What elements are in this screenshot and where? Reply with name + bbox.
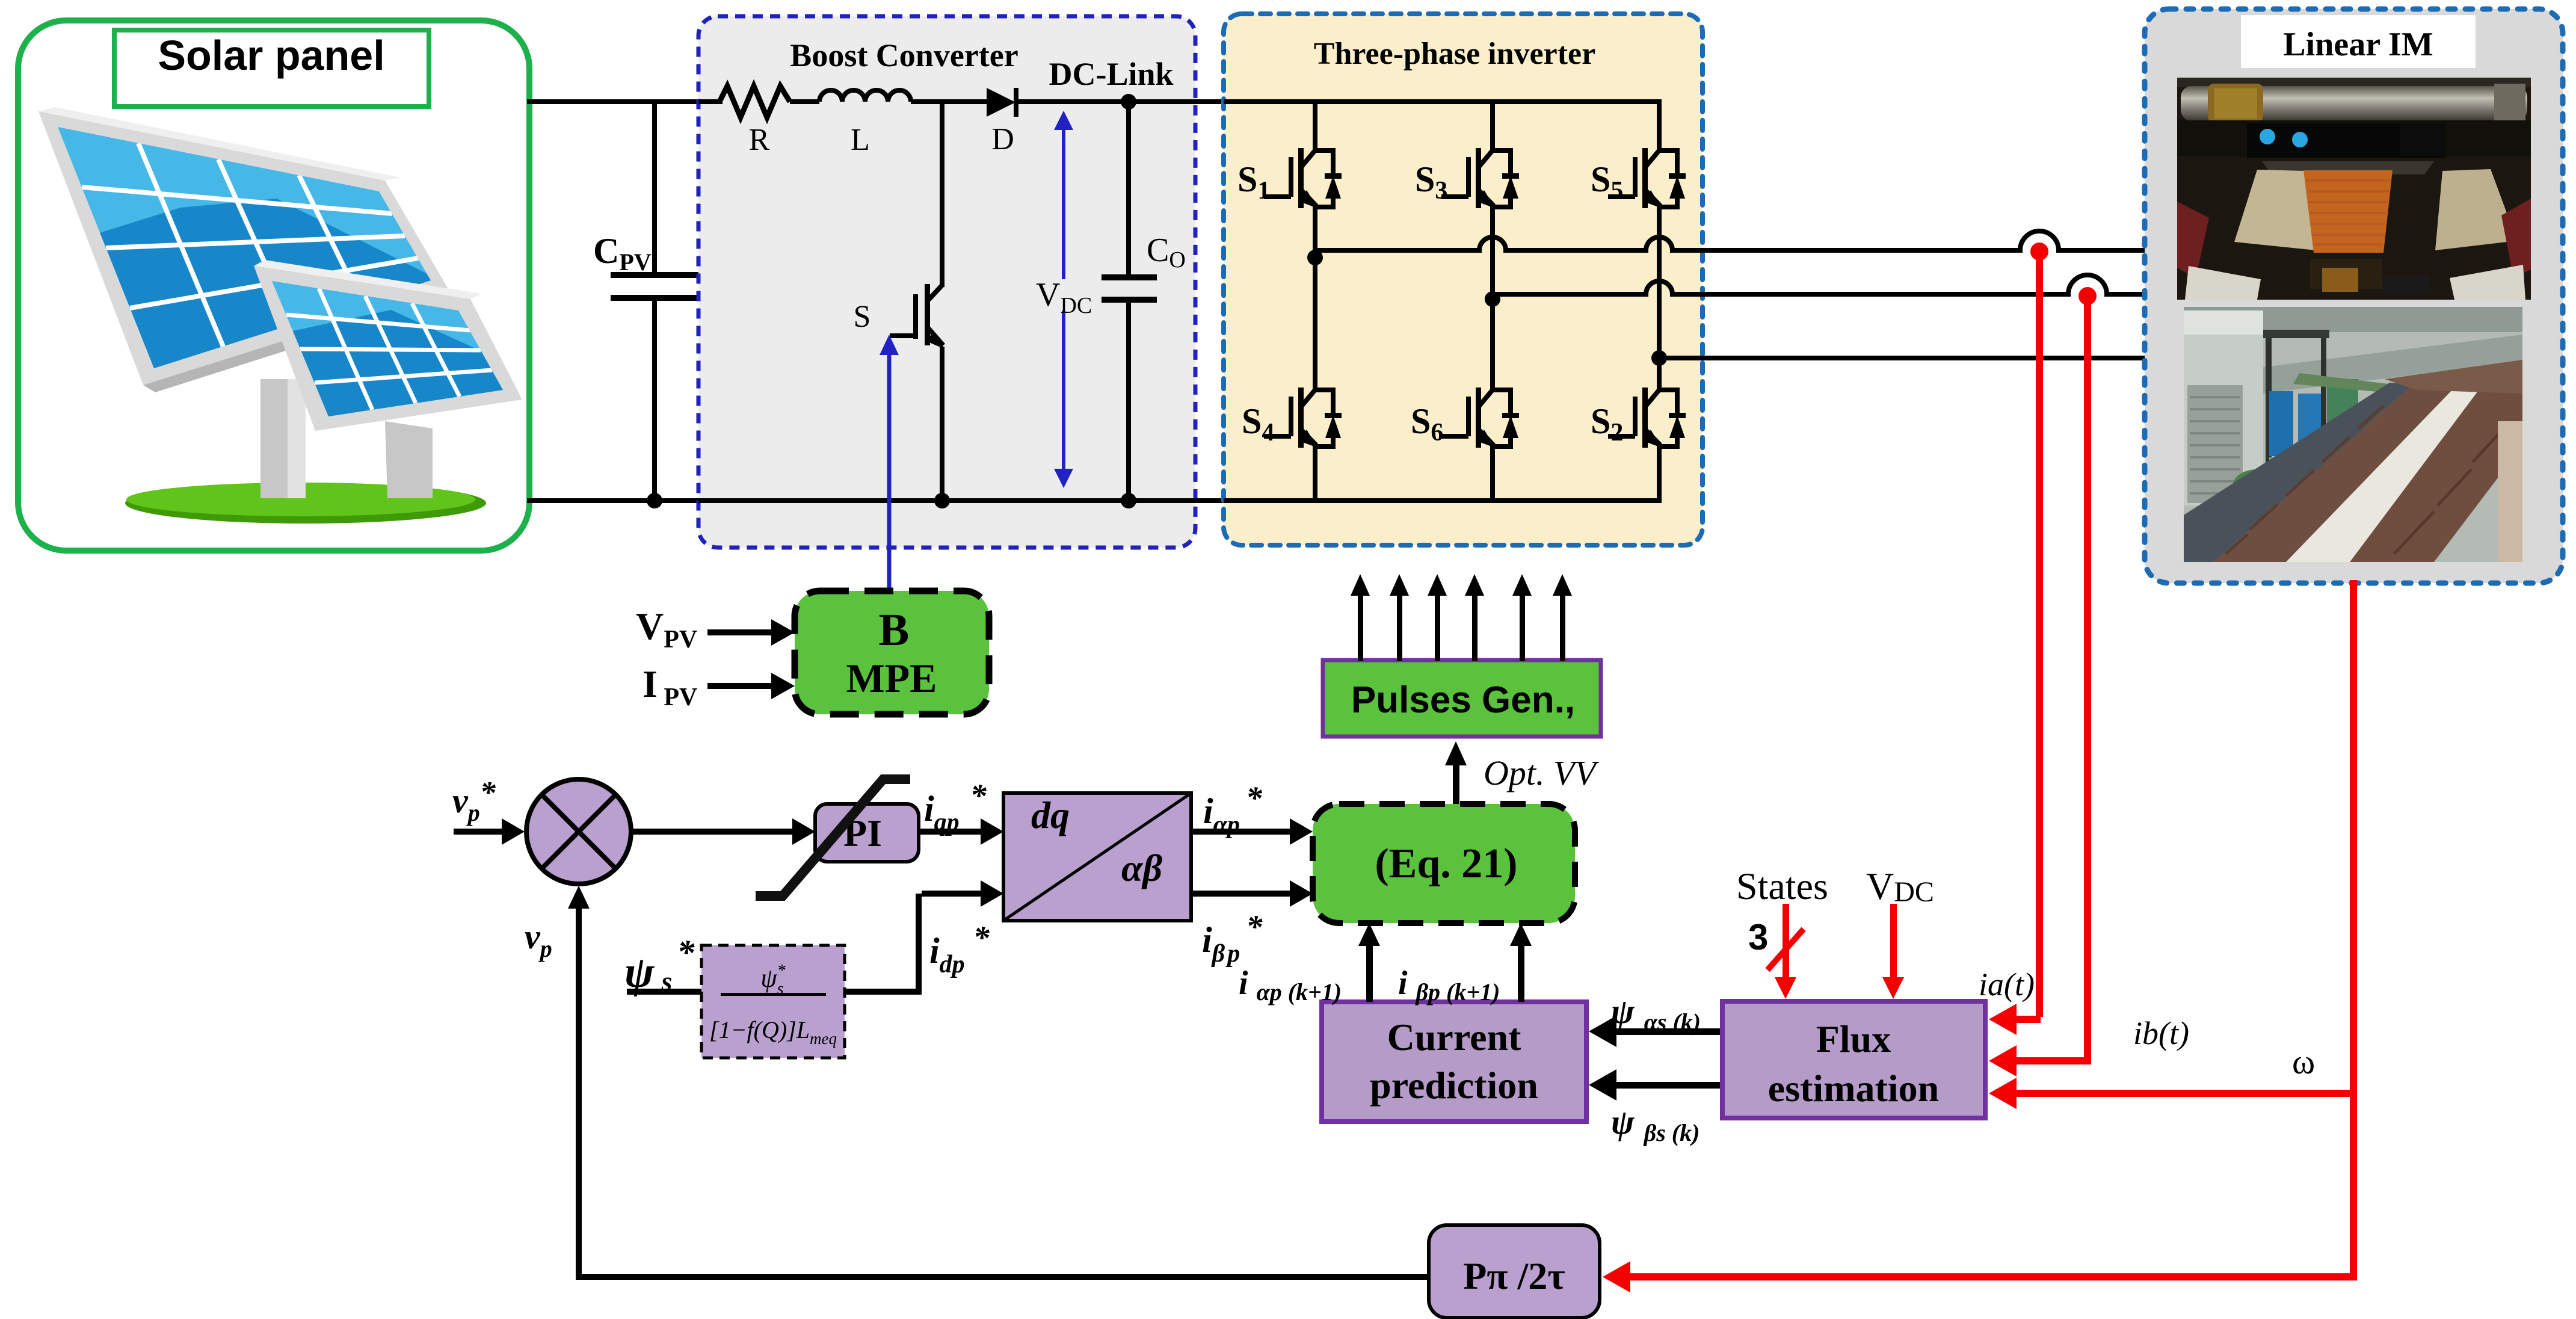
block Flux estimation <box>1722 1001 1985 1118</box>
block PI <box>815 804 919 862</box>
red feedback line omega from Linear IM <box>1603 580 2357 1293</box>
junction dot CO bottom <box>1121 493 1136 508</box>
svg-text:CPV: CPV <box>593 231 652 276</box>
svg-text:L: L <box>851 123 870 157</box>
wire phase A output with crossover hops and sensor hump <box>1315 231 2145 250</box>
transistor S1 <box>1264 148 1342 209</box>
wire S5 emitter to node C <box>1657 206 1662 390</box>
photo linear induction motor underside <box>2177 78 2531 300</box>
solar panel title label <box>114 30 429 107</box>
svg-text:iqp*: iqp* <box>924 777 987 836</box>
capacitor CO vertical bottom <box>1126 303 1131 501</box>
current sensor phase B red dot <box>2078 287 2097 305</box>
gate pulse arrow 6 <box>1553 574 1572 661</box>
transistor S2 <box>1608 388 1686 449</box>
wire switch branch vertical <box>940 102 944 287</box>
wire phase C output <box>1659 356 2145 360</box>
svg-text:ψαs (k): ψαs (k) <box>1611 992 1701 1036</box>
leg C top stub wire <box>1657 102 1662 153</box>
gate pulse arrow 5 <box>1512 574 1532 661</box>
svg-text:ψβs (k): ψβs (k) <box>1611 1102 1699 1146</box>
photo elevated guideway track <box>2184 307 2522 562</box>
junction dot CPV bottom <box>647 493 662 508</box>
svg-text:αβ: αβ <box>1121 847 1162 889</box>
svg-text:iβp (k+1): iβp (k+1) <box>1398 965 1500 1005</box>
capacitor CPV vertical wire bottom <box>652 300 657 502</box>
wire psi alpha s from flux estimation arrow <box>1589 1016 1722 1047</box>
wire dq ibeta output arrow <box>1191 880 1313 907</box>
svg-text:(Eq. 21): (Eq. 21) <box>1375 841 1517 887</box>
wire flux function to dq idp input <box>845 880 1003 995</box>
red arrow States into flux estimation <box>1767 904 1804 999</box>
summing junction multiplier circle <box>526 779 631 884</box>
svg-text:ia(t): ia(t) <box>1979 966 2035 1002</box>
svg-text:prediction: prediction <box>1370 1064 1538 1107</box>
wire predicted i beta arrow to Eq21 <box>1510 923 1532 1002</box>
wire vp ref input arrow <box>454 818 525 845</box>
junction dot switch bottom <box>934 493 950 508</box>
wire VPV input arrow <box>707 619 795 646</box>
wire resistor to inductor <box>790 99 819 104</box>
svg-text:ib(t): ib(t) <box>2133 1015 2189 1051</box>
svg-text:DC-Link: DC-Link <box>1049 56 1173 92</box>
VDC measurement arrow <box>1054 111 1073 488</box>
svg-text:Linear IM: Linear IM <box>2283 26 2433 63</box>
svg-text:Opt. VV: Opt. VV <box>1484 753 1600 792</box>
wire S1 emitter to node A <box>1313 206 1317 390</box>
wire phase B output with crossover hop and sensor hump <box>1493 275 2145 294</box>
wire top rail boost entry <box>698 99 723 104</box>
svg-text:dq: dq <box>1031 794 1070 836</box>
wire inductor to diode <box>911 99 987 104</box>
gate pulse arrow 1 <box>1351 574 1370 661</box>
svg-text:estimation: estimation <box>1768 1067 1939 1110</box>
wire S2 emitter to bottom rail <box>1657 445 1662 501</box>
svg-text:Flux: Flux <box>1816 1018 1891 1060</box>
svg-text:ψ*s: ψ*s <box>760 962 785 998</box>
wire Opt VV arrow Eq21 to Pulses Gen <box>1445 741 1467 804</box>
svg-text:iαp (k+1): iαp (k+1) <box>1239 965 1342 1005</box>
flux function block psi over L <box>701 945 845 1058</box>
wire diode to inverter box <box>1018 99 1226 104</box>
transistor S4 <box>1264 388 1342 449</box>
block Current prediction <box>1322 1002 1586 1122</box>
svg-text:States: States <box>1736 865 1828 907</box>
diode D <box>987 88 1018 117</box>
wire psi s star into flux function block <box>627 989 701 995</box>
wire S4 emitter to bottom rail <box>1313 445 1317 501</box>
svg-text:Current: Current <box>1387 1016 1521 1058</box>
wire psi beta s from flux estimation arrow <box>1589 1069 1722 1101</box>
capacitor CO <box>1102 274 1157 303</box>
wire top rail inside inverter <box>1224 99 1662 104</box>
leg A top stub wire <box>1313 102 1317 153</box>
svg-text:Pulses Gen.,: Pulses Gen., <box>1351 679 1575 721</box>
gate pulse arrow 2 <box>1390 574 1409 661</box>
svg-text:VDC: VDC <box>1866 865 1934 908</box>
current sensor phase A red dot <box>2030 242 2048 261</box>
block dq to alpha-beta transform <box>1003 793 1191 921</box>
wire dq ialpha output arrow <box>1191 818 1313 845</box>
svg-text:I PV: I PV <box>642 663 697 711</box>
transistor S6 <box>1441 388 1519 449</box>
solar panel enclosure box <box>18 20 529 551</box>
wire S3 emitter to node B <box>1490 206 1495 390</box>
transistor S5 <box>1608 148 1686 209</box>
red arrow VDC into flux estimation <box>1882 904 1904 999</box>
wire IPV input arrow <box>707 673 795 699</box>
node A junction dot <box>1307 250 1323 265</box>
boost converter box <box>698 16 1195 548</box>
node C junction dot <box>1651 350 1667 366</box>
wire: bottom rail solar side <box>527 498 701 503</box>
svg-text:D: D <box>991 122 1014 156</box>
gate pulse arrow 3 <box>1428 574 1447 661</box>
block B MPE <box>795 591 989 714</box>
Linear IM box <box>2145 9 2563 583</box>
capacitor CPV <box>611 272 698 301</box>
saturation limiter symbol <box>756 779 910 896</box>
svg-text:ψs*: ψs* <box>624 933 695 997</box>
svg-text:iβp*: iβp* <box>1202 909 1263 968</box>
transistor S3 <box>1441 148 1519 209</box>
red feedback line ib from sensor B <box>1989 300 2091 1077</box>
solar panel illustration <box>36 102 522 524</box>
svg-text:S: S <box>854 300 871 334</box>
svg-text:Pπ /2τ: Pπ /2τ <box>1463 1255 1565 1297</box>
svg-text:3: 3 <box>1748 917 1768 957</box>
wire PI to dq arrow <box>919 818 1003 845</box>
svg-text:vp*: vp* <box>452 776 496 826</box>
svg-text:Solar panel: Solar panel <box>158 32 384 79</box>
gate pulse arrow 4 <box>1465 574 1484 661</box>
leg B top stub wire <box>1490 102 1495 153</box>
junction dot DC link top <box>1121 94 1136 110</box>
svg-text:B: B <box>879 605 910 655</box>
three-phase inverter box <box>1224 14 1702 545</box>
svg-text:ω: ω <box>2292 1042 2315 1081</box>
IGBT S <box>890 284 944 349</box>
block Eq 21 <box>1313 804 1575 923</box>
wire switch emitter to bottom rail <box>940 347 944 501</box>
capacitor CO vertical top <box>1126 102 1131 276</box>
capacitor CPV vertical wire top <box>652 99 657 275</box>
wire predicted i alpha arrow to Eq21 <box>1358 923 1380 1002</box>
wire speed feedback to summing junction <box>568 886 1429 1280</box>
wire: solar panel to boost converter top rail <box>527 99 701 104</box>
wire S6 emitter to bottom rail <box>1490 445 1495 501</box>
svg-text:Three-phase inverter: Three-phase inverter <box>1314 37 1595 71</box>
svg-text:Boost Converter: Boost Converter <box>790 37 1018 73</box>
svg-text:MPE: MPE <box>846 655 937 701</box>
red feedback line ia from sensor A <box>1989 255 2043 1035</box>
wire summing junction to PI arrow <box>631 818 815 845</box>
block Pulses Gen <box>1323 660 1601 737</box>
node B junction dot <box>1485 291 1500 307</box>
svg-text:idp*: idp* <box>929 919 990 978</box>
wire bottom rail through boost box <box>698 498 1225 503</box>
label Linear IM <box>2241 15 2476 68</box>
svg-text:VPV: VPV <box>636 605 697 653</box>
svg-text:vp: vp <box>525 917 552 962</box>
gate drive blue arrow from B MPE to S <box>880 335 899 590</box>
wire bottom rail inside inverter <box>1224 498 1662 503</box>
resistor R <box>719 86 790 117</box>
label VDC <box>1032 276 1092 318</box>
block P pi over 2 tau <box>1429 1225 1600 1318</box>
svg-text:R: R <box>749 123 770 157</box>
inductor L <box>819 90 911 102</box>
